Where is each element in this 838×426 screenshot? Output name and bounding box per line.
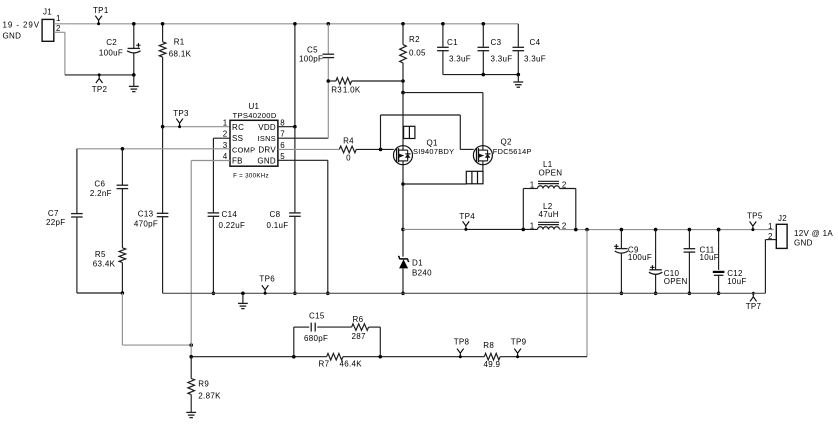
svg-text:TP3: TP3 (173, 109, 189, 118)
test point TP1 (93, 6, 109, 25)
capacitor C8 (267, 127, 301, 295)
svg-text:TP2: TP2 (92, 85, 108, 94)
svg-text:D1: D1 (412, 259, 423, 268)
svg-text:7: 7 (280, 130, 285, 139)
svg-text:8: 8 (280, 118, 285, 127)
wire drain tie (401, 91, 483, 146)
svg-text:J2: J2 (778, 214, 787, 223)
svg-text:C3: C3 (491, 38, 502, 47)
U1 right pin names (257, 123, 276, 166)
svg-text:100uF: 100uF (99, 49, 123, 58)
test point TP5 (747, 212, 763, 231)
svg-text:1: 1 (530, 221, 535, 230)
wire gate detour to Q2 (379, 115, 474, 151)
svg-text:DRV: DRV (258, 145, 276, 154)
svg-text:3.3uF: 3.3uF (524, 55, 546, 64)
svg-text:R8: R8 (483, 341, 494, 350)
svg-text:SS: SS (232, 134, 243, 143)
svg-text:68.1K: 68.1K (169, 49, 192, 58)
inductor L2 (530, 202, 567, 231)
test point TP7 (746, 292, 762, 311)
svg-text:OPEN: OPEN (664, 277, 688, 286)
svg-text:TP4: TP4 (459, 212, 475, 221)
transistor Q2 (473, 137, 531, 164)
svg-text:R3: R3 (331, 86, 342, 95)
input labels 19-29V / GND (3, 21, 40, 41)
svg-text:6: 6 (280, 141, 285, 150)
capacitor C15 labels (304, 312, 328, 343)
svg-text:C15: C15 (309, 312, 325, 321)
svg-text:49.9: 49.9 (484, 360, 501, 369)
svg-text:TP9: TP9 (511, 337, 527, 346)
capacitor C2 (99, 22, 141, 77)
svg-text:FB: FB (232, 157, 243, 166)
svg-text:C1: C1 (447, 38, 458, 47)
svg-text:COMP: COMP (232, 145, 255, 154)
wire Q1 drain (402, 93, 404, 146)
wire feedback line (189, 355, 587, 359)
svg-text:63.4K: 63.4K (93, 259, 116, 268)
svg-text:19 - 29V: 19 - 29V (3, 21, 40, 30)
capacitor C5 (299, 22, 334, 81)
svg-text:1: 1 (223, 118, 228, 127)
capacitor C1 (437, 22, 471, 75)
test point TP6 (259, 274, 275, 294)
svg-text:2: 2 (562, 180, 567, 189)
capacitor C14 (208, 138, 246, 295)
svg-text:U1: U1 (248, 102, 259, 111)
wire J1 pin2 to TP2 node (54, 32, 134, 75)
resistor R5 (93, 248, 126, 293)
svg-text:2.87K: 2.87K (198, 392, 221, 401)
capacitor C7 (46, 149, 83, 293)
wire FB net (191, 161, 230, 357)
svg-text:47uH: 47uH (539, 210, 559, 219)
svg-text:R1: R1 (174, 38, 185, 47)
svg-text:R2: R2 (409, 35, 420, 44)
svg-text:C7: C7 (48, 209, 59, 218)
capacitor C3 (478, 22, 513, 75)
svg-text:R5: R5 (95, 250, 106, 259)
resistor R9 (188, 357, 221, 413)
svg-text:J1: J1 (43, 8, 52, 17)
connector J1 (42, 8, 61, 42)
wire comp bottom to FB line (122, 293, 193, 347)
svg-text:2: 2 (562, 221, 567, 230)
svg-text:TPS40200D: TPS40200D (233, 111, 277, 120)
svg-text:VDD: VDD (258, 123, 276, 132)
diode D1 (398, 228, 432, 296)
svg-text:C8: C8 (270, 210, 281, 219)
svg-text:0.1uF: 0.1uF (267, 221, 289, 230)
ground on bus (238, 292, 248, 309)
svg-text:C4: C4 (530, 38, 541, 47)
svg-text:GND: GND (3, 32, 22, 41)
connector J2 (768, 214, 787, 249)
svg-text:1.0K: 1.0K (343, 86, 361, 95)
svg-text:C5: C5 (307, 46, 318, 55)
svg-text:B240: B240 (412, 269, 432, 278)
svg-text:OPEN: OPEN (539, 169, 563, 178)
svg-text:TP1: TP1 (93, 6, 109, 15)
net short S1 above Q1 (404, 126, 415, 138)
test point TP3 (173, 109, 189, 128)
svg-text:R9: R9 (198, 380, 209, 389)
svg-text:RC: RC (232, 123, 244, 132)
capacitor C9 (614, 230, 652, 296)
capacitor C13 (134, 127, 169, 294)
svg-text:Q2: Q2 (501, 137, 513, 146)
svg-text:R6: R6 (353, 315, 364, 324)
wire COMP net (77, 148, 230, 150)
svg-text:C2: C2 (106, 38, 117, 47)
wire SS net (213, 137, 230, 139)
ground under R9 (186, 412, 196, 417)
test point TP9 (511, 337, 527, 358)
svg-text:22pF: 22pF (46, 218, 65, 227)
svg-text:2.2nF: 2.2nF (90, 189, 112, 198)
svg-text:GND: GND (257, 157, 276, 166)
test point TP8 (454, 337, 470, 358)
U1 left pin names (232, 123, 255, 166)
ground under C4 (513, 75, 523, 88)
svg-text:TP6: TP6 (259, 274, 275, 283)
svg-text:1: 1 (56, 14, 61, 23)
svg-text:100uF: 100uF (628, 253, 652, 262)
svg-text:680pF: 680pF (304, 334, 328, 343)
svg-text:GND: GND (794, 239, 813, 248)
wire output rail (560, 228, 774, 232)
svg-text:12V @ 1A: 12V @ 1A (794, 229, 833, 238)
IC U1 TPS40200D box (230, 102, 278, 180)
svg-text:46.4K: 46.4K (340, 359, 363, 368)
capacitor C10 (649, 230, 688, 296)
svg-text:287: 287 (352, 332, 366, 341)
svg-text:TP7: TP7 (746, 302, 762, 311)
resistor R3 (327, 78, 405, 95)
inductor L1 (522, 160, 576, 231)
svg-text:100pF: 100pF (299, 55, 323, 64)
svg-text:4: 4 (223, 152, 228, 161)
wire RC net (161, 125, 230, 129)
net short S2 below Q2 (466, 171, 483, 184)
svg-text:10uF: 10uF (727, 277, 746, 286)
resistor R6 (352, 315, 369, 341)
resistor R2 (400, 22, 426, 93)
resistor R4 (278, 137, 394, 163)
svg-text:F = 300KHz: F = 300KHz (233, 173, 269, 180)
svg-text:2: 2 (223, 130, 228, 139)
wire C7-R5 join (77, 291, 124, 295)
wire GND pin5 net (278, 160, 330, 295)
svg-text:470pF: 470pF (134, 220, 158, 229)
wire source tie (403, 164, 483, 184)
test point TP2 (92, 73, 108, 94)
svg-text:R7: R7 (319, 359, 330, 368)
svg-text:1: 1 (768, 222, 773, 231)
capacitor C6 (90, 147, 128, 248)
U1 pin numbers (223, 118, 286, 161)
svg-text:3.3uF: 3.3uF (491, 55, 513, 64)
wire ground bus (163, 292, 766, 294)
resistor R8 (483, 341, 500, 369)
svg-text:0.05: 0.05 (409, 49, 426, 58)
svg-text:FDC5614P: FDC5614P (493, 147, 532, 156)
compensation branch C15 R6 (294, 323, 381, 357)
capacitor C12 (713, 228, 747, 295)
resistor R1 (159, 22, 191, 127)
wire C1-C4 bottom (443, 73, 520, 77)
wire VDD net (278, 22, 297, 129)
resistor R7 (319, 353, 363, 368)
wire feedback sense (586, 230, 588, 357)
wire switch node (403, 228, 538, 230)
svg-text:R4: R4 (343, 137, 354, 146)
svg-text:C6: C6 (94, 180, 105, 189)
test point TP4 (459, 212, 475, 231)
svg-text:0.22uF: 0.22uF (219, 221, 246, 230)
svg-text:1: 1 (530, 180, 535, 189)
wire J2 pin2 (765, 240, 776, 294)
ground under C2 (129, 75, 139, 92)
svg-text:10uF: 10uF (700, 253, 719, 262)
transistor Q1 (394, 139, 455, 165)
svg-text:SI9407BDY: SI9407BDY (413, 147, 454, 156)
svg-text:C14: C14 (222, 210, 238, 219)
wire ISNS net (278, 81, 328, 138)
svg-text:TP5: TP5 (747, 212, 763, 221)
capacitor C4 (513, 24, 546, 75)
svg-text:ISNS: ISNS (258, 134, 276, 143)
svg-text:C13: C13 (138, 209, 154, 218)
wire input rail (54, 23, 519, 25)
svg-text:3.3uF: 3.3uF (449, 55, 471, 64)
svg-text:TP8: TP8 (454, 337, 470, 346)
capacitor C11 (684, 230, 719, 296)
svg-text:0: 0 (346, 154, 351, 163)
output labels 12V / GND (794, 229, 833, 248)
wire Q1 source (401, 164, 405, 229)
